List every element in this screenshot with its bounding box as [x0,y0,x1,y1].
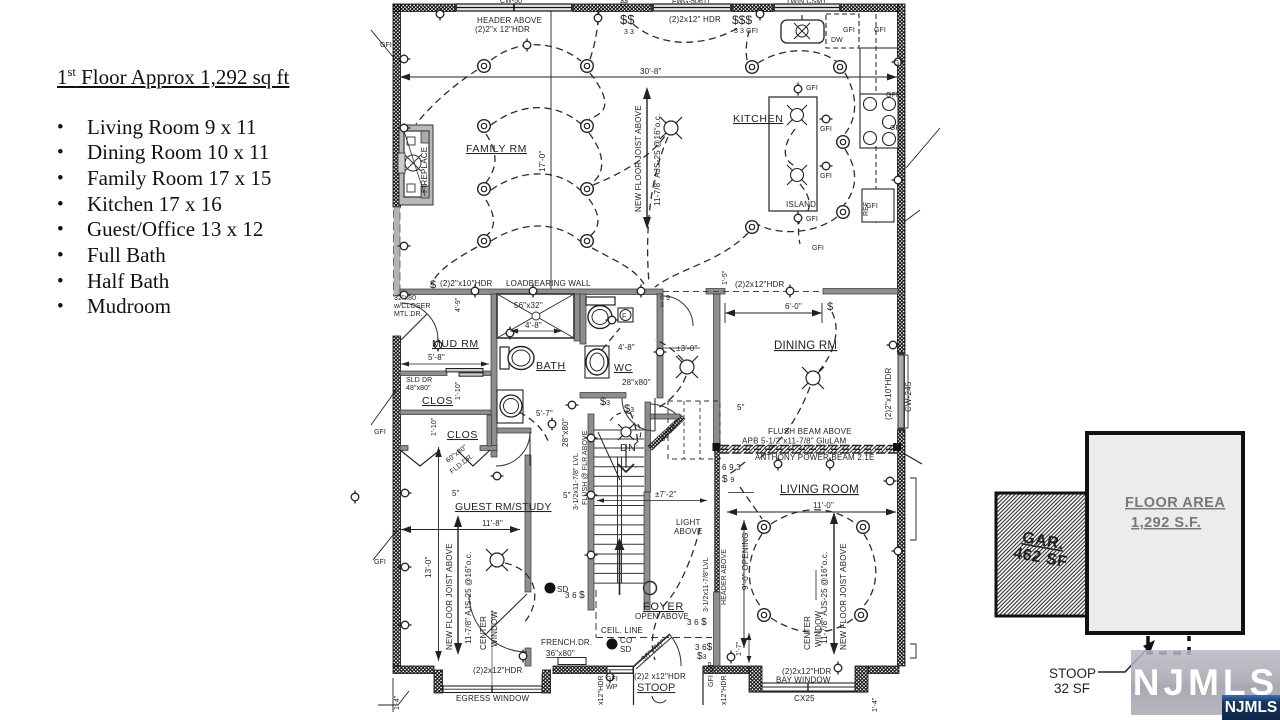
svg-text:LOADBEARING WALL: LOADBEARING WALL [506,279,591,288]
range/cooktop [860,94,898,148]
svg-text:APB 5-1/2"x11-7/8" GluLAM: APB 5-1/2"x11-7/8" GluLAM [742,437,846,446]
svg-text:(2)2"x10"HDR: (2)2"x10"HDR [884,367,893,420]
svg-text:13'-0": 13'-0" [424,556,433,578]
kitchen island [769,97,817,211]
window top 2 [651,3,733,12]
svg-text:5": 5" [737,403,745,412]
center window labels [479,610,499,650]
svg-text:5": 5" [452,489,460,498]
svg-text:GFI: GFI [806,216,818,223]
svg-text:11-7/8" AJS-25 @16"o.c.: 11-7/8" AJS-25 @16"o.c. [653,113,662,206]
svg-text:GFI: GFI [894,60,906,67]
svg-text:9'-0" OPENING: 9'-0" OPENING [741,532,750,590]
svg-text:3 3: 3 3 [624,29,634,36]
mudroom door label [393,295,431,318]
WC west wall [580,294,586,344]
svg-text:1'-5": 1'-5" [722,270,729,285]
loadbearing wall [400,289,663,295]
svg-text:CW-245: CW-245 [904,381,913,412]
garage label [1012,528,1072,571]
svg-text:WP: WP [606,684,618,691]
svg-text:SD: SD [557,585,569,594]
svg-text:(2)2x12"HDR: (2)2x12"HDR [735,280,785,289]
svg-text:BATH: BATH [536,360,566,372]
wiring arc fan down to wall [648,137,668,283]
stoop dashed outline [1148,636,1189,653]
dim line 11'-0" living [727,501,896,516]
svg-text:1'-7": 1'-7" [736,641,743,656]
counter dashed edge [875,14,877,94]
svg-text:CLOS: CLOS [447,429,478,441]
wiring arc dining fan down [760,387,810,458]
svg-text:5": 5" [563,491,571,500]
garage hatched box [996,493,1087,616]
foyer ceiling dashed lines [596,590,712,638]
svg-text:FRENCH.DR.: FRENCH.DR. [541,638,592,647]
wiring arc dining switch to fan [819,312,836,371]
svg-text:WINDOW: WINDOW [490,610,499,647]
svg-text:x12"HDR: x12"HDR [721,675,728,705]
svg-text:5'-8": 5'-8" [428,353,445,362]
svg-text:FAMILY RM: FAMILY RM [466,143,527,155]
svg-text:MTL.DR.: MTL.DR. [394,311,423,318]
svg-text:3 3 GFI: 3 3 GFI [734,28,758,35]
right outside dim brackets [910,478,916,658]
wiring arc kitchen light to switches [746,28,750,60]
svg-text:WC: WC [614,362,633,374]
outlets left wall [398,55,411,63]
stair west wall [588,414,594,610]
outlets left wall lower [399,489,412,497]
stair center stringer [618,457,622,583]
smoke detector guest [545,583,556,594]
stair landing fan [618,424,634,440]
wiring arc family top pair [491,45,581,61]
svg-text:1'-10": 1'-10" [431,417,438,436]
svg-text:FLOOR AREA: FLOOR AREA [1125,495,1225,511]
WC door arc [622,398,655,431]
closet south wall stubs [400,446,408,451]
svg-text:ANTHONY POWER BEAM 2.1E: ANTHONY POWER BEAM 2.1E [755,453,875,462]
mudroom entry door [401,303,438,340]
french door label [541,638,592,658]
recessed lights kitchen [746,61,759,74]
clos east wall stub [487,415,492,446]
refrigerator [862,189,894,222]
svg-text:SLD DR: SLD DR [406,377,432,384]
svg-text:SD: SD [620,645,632,654]
wiring arc island chain [785,129,795,166]
svg-text:FLUSH @ FLR ABOVE: FLUSH @ FLR ABOVE [582,430,589,505]
island faucet 1 [787,105,807,125]
outlet guest window [351,491,359,504]
svg-text:DN: DN [620,442,636,454]
beam dashed lines [720,445,897,454]
wiring arc living left chain [749,534,762,608]
wiring arc family mid pair [491,108,581,125]
shower east wall [574,294,580,341]
WC south wall [580,393,626,399]
dim line 6'-0" dining [725,302,822,323]
switch cluster kitchen top [732,13,758,35]
svg-text:LIVING ROOM: LIVING ROOM [780,484,859,496]
svg-text:NEW FLOOR JOIST ABOVE: NEW FLOOR JOIST ABOVE [445,543,454,650]
beam end block [713,443,721,451]
wiring arc living switch link [740,487,762,519]
svg-text:3-1/2x11-7/8" LVL: 3-1/2x11-7/8" LVL [573,453,580,510]
wiring arc living top pair [771,510,856,524]
light above label [674,518,703,536]
kitchen sink [781,15,824,43]
svg-text:(2)2x12" HDR: (2)2x12" HDR [669,15,721,24]
svg-text:NEW FLOOR JOIST ABOVE: NEW FLOOR JOIST ABOVE [839,543,848,650]
wiring arc switches to kitchen cluster [633,24,741,42]
svg-text:STOOP: STOOP [1049,666,1096,681]
island gfi outlets [794,83,802,96]
wiring arc family to top switches [590,10,599,59]
svg-text:17'-0": 17'-0" [538,150,547,172]
svg-text:(2)2 x12"HDR: (2)2 x12"HDR [634,672,686,681]
svg-text:1,292 S.F.: 1,292 S.F. [1131,515,1201,531]
window top 1 [454,3,574,12]
hall door arc at opening [663,296,693,326]
svg-text:11-7/8" AJS-25 @16"o.c.: 11-7/8" AJS-25 @16"o.c. [464,551,473,644]
small dim texts [452,123,745,500]
svg-text:30'-8": 30'-8" [640,67,662,76]
svg-text:DW: DW [831,37,843,44]
gfi wp labels bottom [606,661,715,691]
dim 4'-8" wc [618,343,635,352]
svg-text:CENTER: CENTER [803,616,812,650]
svg-text:NEW FLOOR JOIST ABOVE: NEW FLOOR JOIST ABOVE [634,105,643,212]
exterior wall top [393,4,899,12]
svg-text:$$$: $$$ [732,13,752,27]
bottom hdr labels [473,666,832,685]
fan breakfast [660,117,682,139]
svg-text:KITCHEN: KITCHEN [733,113,783,125]
svg-text:CENTER: CENTER [479,616,488,650]
outlets top wall [436,8,444,21]
landing swirl dashes [610,413,641,445]
svg-text:32"x80": 32"x80" [658,416,684,443]
right wall rotated labels [884,367,913,420]
wiring arc kitchen right chain [844,73,855,135]
switch living 693 [722,463,741,485]
svg-text:GFI: GFI [374,429,386,436]
wiring arc family right chain [589,73,605,119]
wiring arc kitchen top pair [758,51,836,63]
svg-text:GFI: GFI [886,92,898,99]
small dims rotated [394,270,879,712]
dim line 13'-0" guest vertical [424,447,442,661]
bath toilet [500,347,534,370]
svg-text:GFI WP: GFI WP [708,661,715,687]
header-above open wall (hatched) [715,451,720,592]
svg-text:3-1/2x11-7/8"LVL: 3-1/2x11-7/8"LVL [703,557,710,612]
dim line 17'-0" vertical [538,11,551,289]
svg-text:FIREPLACE: FIREPLACE [420,147,429,193]
bifold doors [400,450,490,466]
outlets right wall [892,58,905,66]
exterior wall left upper [393,4,401,207]
joist text family [634,87,662,229]
svg-text:$3: $3 [624,403,634,415]
stair dn arrow [598,432,634,480]
wiring arc bath sink [519,412,548,441]
dim 5'-8" mudroom [401,353,489,367]
svg-text:6 93: 6 93 [660,295,670,309]
switch $$ top family [620,12,635,36]
stairs top landing treads [594,430,644,448]
recessed lights family room [478,60,491,73]
angled door arc [650,404,676,414]
front sidelight window [607,667,633,674]
stair corridor rotated labels [573,430,589,510]
french door guest [469,594,527,652]
svg-text:32"x80: 32"x80 [394,295,416,302]
svg-text:4'-8": 4'-8" [618,343,635,352]
clipped window labels above top wall [500,0,827,6]
stoop jamb lines [634,666,704,705]
window right CW-245 [897,352,908,431]
svg-text:EGRESS WINDOW: EGRESS WINDOW [456,694,530,703]
svg-text:6'-0": 6'-0" [785,302,802,311]
foyer right rotated labels [703,549,728,612]
WC fan box [618,308,633,322]
stair east wall [645,402,651,492]
dim 4'-8" shower [510,321,562,334]
NJMLS watermark large [1131,650,1280,715]
outlets middle [434,339,442,352]
dim line 7-2 [597,498,707,502]
egress window bumpout [434,610,551,693]
wiring arc foyer to door [652,612,660,660]
svg-text:1'-10": 1'-10" [455,381,462,400]
svg-text:28"x80": 28"x80" [622,378,651,387]
WC toilet [586,297,615,329]
stair angled wall [648,415,685,450]
svg-text:GFI: GFI [874,27,886,34]
sliding door label [406,377,432,392]
svg-text:CX25: CX25 [794,694,815,703]
header above top [475,16,542,34]
leader lines top-left exterior [371,30,397,560]
recessed lights living room [758,521,771,534]
svg-text:FLUSH BEAM ABOVE: FLUSH BEAM ABOVE [768,427,852,436]
dining top wall [823,289,898,295]
dim helper lines mid [654,348,700,493]
svg-text:OPEN ABOVE: OPEN ABOVE [635,612,689,621]
svg-text:(2)2x12"HDR: (2)2x12"HDR [473,666,523,675]
bath sink [497,390,523,423]
wiring arc foyer light above [663,528,700,606]
room list text block [0,0,370,400]
dishwasher dashed [826,14,859,48]
joist text guest [445,515,473,655]
beam end right block [893,443,901,451]
island faucet 2 [787,165,807,185]
wiring arc island to GFI bottom [799,217,801,244]
svg-text:GFI: GFI [843,27,855,34]
mudroom east wall [491,294,497,457]
svg-text:w/CLOSER: w/CLOSER [393,303,431,310]
beam labels [742,427,875,462]
svg-text:DINING RM: DINING RM [774,340,837,352]
wiring arc guest fan right [505,563,535,623]
fan hall [676,356,698,378]
svg-text:ISLAND: ISLAND [786,200,816,209]
svg-text:±7'-2": ±7'-2" [655,490,677,499]
stair newel [644,582,657,595]
stairs treads [594,457,644,583]
NJMLS badge small [1222,695,1280,720]
bottom rotated hdr labels [598,675,728,705]
svg-text:GFI: GFI [820,126,832,133]
foyer east wall lower [714,592,721,666]
svg-text:11'-0": 11'-0" [813,501,834,510]
wiring arc hall fan [655,340,683,360]
svg-text:GFI: GFI [806,85,818,92]
fan guest [486,549,508,571]
svg-text:$ 9: $ 9 [722,474,734,485]
foyer north wall stub [650,414,680,419]
wiring arc family left chain [485,134,495,184]
wiring arc family bottom to loadbearing [592,248,644,284]
wiring arc family light1 to wall [416,70,477,124]
bay window bumpout [749,666,868,692]
leader lines right exterior [904,128,940,222]
svg-text:(2)2"x10"HDR: (2)2"x10"HDR [440,279,493,288]
svg-text:48"x80": 48"x80" [406,385,431,392]
dining/foyer west wall [714,294,721,444]
under-stair dashed closet [668,401,720,459]
wiring arc family right to fan [593,136,665,185]
WC sink [585,346,609,378]
svg-text:$3: $3 [697,651,707,662]
guest east wall lower stub [525,648,531,666]
wiring arc kitchen to island [655,233,748,287]
svg-text:56"x32": 56"x32" [514,301,543,310]
svg-text:6 9 3: 6 9 3 [722,463,741,472]
svg-text:MUD RM: MUD RM [432,338,479,350]
floor area box [1087,433,1243,633]
svg-text:CLOS: CLOS [422,395,453,407]
svg-text:$$: $$ [620,12,635,27]
svg-text:11'-8": 11'-8" [482,519,503,528]
svg-text:HEADER ABOVE: HEADER ABOVE [477,16,542,25]
wiring arc family bottom to switch left [431,247,477,285]
svg-text:x12"HDR: x12"HDR [598,675,605,705]
dim line 11'-8" guest [401,519,520,533]
front door leaf [633,634,681,703]
svg-text:5'-7": 5'-7" [536,409,553,418]
svg-text:CO: CO [620,636,632,645]
svg-text:36"x80": 36"x80" [546,649,575,658]
wiring arc living right chain [862,534,876,608]
sliding door [446,369,483,377]
stoop label right [1049,666,1096,696]
wiring arc kitchen bottom sweep [757,217,837,232]
gfi labels kitchen [806,27,906,252]
WC east wall [657,294,663,398]
shower 56x32 [497,294,574,338]
stoop leader arrow [1098,640,1155,672]
svg-text:GFI: GFI [820,173,832,180]
exterior wall right [898,4,906,354]
corner leader bottom-left [378,678,409,712]
svg-text:GFI: GFI [866,203,878,210]
mudroom south wall [400,371,447,376]
window top 3 [772,3,842,12]
svg-text:32 SF: 32 SF [1054,681,1090,696]
dim line 30'-8" [400,67,897,81]
svg-text:$: $ [430,279,436,291]
wiring arc living bottom pair [771,618,854,632]
bath door arc [496,432,530,466]
svg-text:GFI: GFI [374,559,386,566]
svg-text:GFI: GFI [606,676,618,683]
exterior wall bottom segments [393,666,434,674]
wall opening dashed line dining [663,291,823,293]
bath south wall [497,428,531,433]
svg-text:GFI: GFI [812,245,824,252]
joist text living [820,512,848,655]
dim 1-7 arrow front [747,633,752,663]
dim 9'-0 opening vertical [728,493,754,649]
exterior wall left gray section [394,207,401,296]
svg-text:ABOVE: ABOVE [674,527,703,536]
svg-text:4'-9": 4'-9" [455,297,462,312]
wiring arc wc sink [602,328,620,350]
svg-text:WINDOW: WINDOW [814,610,823,647]
svg-text:±3'-0": ±3'-0" [676,344,698,353]
svg-text:28"x80": 28"x80" [561,418,570,447]
svg-text:36"x80": 36"x80" [639,637,666,663]
svg-text:(2)2"x 12"HDR: (2)2"x 12"HDR [475,25,530,34]
dining top wall stub [706,289,725,295]
svg-text:HEADER ABOVE: HEADER ABOVE [721,549,728,605]
svg-text:F: F [622,314,626,321]
svg-text:GUEST RM/STUDY: GUEST RM/STUDY [455,501,552,513]
wiring arc beam to living switches [729,462,745,474]
svg-text:BAY WINDOW: BAY WINDOW [776,676,831,685]
svg-text:CEIL. LINE: CEIL. LINE [601,626,643,635]
wiring arc stairs switch [630,412,637,446]
svg-text:GFI: GFI [890,125,902,132]
svg-text:4'-8": 4'-8" [525,321,542,330]
exterior wall left lower [393,336,401,666]
outlets bottom wall [519,650,527,663]
svg-text:3 6 $: 3 6 $ [687,617,707,628]
outlets loadbearing wall [471,285,479,298]
svg-text:LIGHT: LIGHT [676,518,701,527]
stair up arrow [615,538,625,595]
french door sill [558,658,586,665]
svg-text:$: $ [827,301,833,313]
fan dining [802,367,824,389]
svg-text:STOOP: STOOP [637,682,675,694]
svg-text:1'-4": 1'-4" [872,697,879,712]
fireplace [398,125,433,205]
closet divider wall [400,410,491,415]
outlets stairs wall [585,434,598,442]
guest east wall [525,455,531,592]
co sd label [620,636,632,654]
smoke detector foyer [607,639,618,650]
gfi labels left [374,42,392,566]
